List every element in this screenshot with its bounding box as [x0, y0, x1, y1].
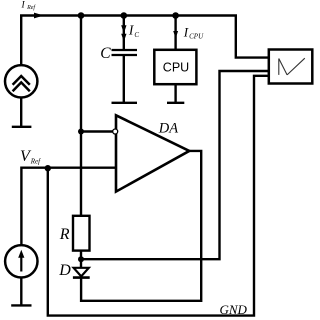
svg-text:VRef: VRef: [20, 148, 41, 166]
op-amp DA triangle: [116, 115, 189, 191]
wire DA output down and left to diode bottom: [81, 151, 201, 301]
junction node on rail at capacitor: [121, 12, 128, 19]
ground bar current source I2: [11, 304, 31, 306]
wire V_Ref to DA inverting (lower) input: [21, 168, 115, 246]
svg-text:CPU: CPU: [163, 60, 189, 74]
svg-text:D: D: [58, 262, 71, 279]
wire current source I2 bottom lead: [20, 277, 22, 305]
arrow I_CPU head: [173, 31, 178, 38]
junction node DA upper input: [78, 129, 84, 135]
wire current source I1 bottom lead: [20, 97, 22, 126]
diode D: [73, 268, 90, 278]
junction node between R and D: [78, 256, 84, 262]
wire CPU bottom lead: [174, 84, 176, 102]
wire capacitor bottom lead: [123, 56, 125, 103]
junction node V_Ref: [45, 165, 51, 171]
ground bar current source I1: [12, 126, 32, 128]
wire capacitor top lead: [123, 16, 125, 50]
svg-text:IRef: IRef: [21, 0, 37, 11]
svg-text:DA: DA: [158, 121, 178, 137]
svg-text:C: C: [100, 45, 111, 62]
svg-text:GND: GND: [220, 302, 248, 317]
svg-text:IC: IC: [128, 23, 140, 39]
wire vertical bus x=81 rail to resistor R: [80, 15, 82, 216]
resistor R body: [73, 216, 90, 251]
junction node on rail at x=81: [78, 12, 85, 19]
inverting input bubble: [113, 129, 118, 134]
wire GND loop from V_Ref node down along bottom and right to box: [48, 76, 270, 316]
wire DA upper input tap: [81, 130, 113, 132]
svg-text:ICPU: ICPU: [183, 24, 204, 40]
capacitor C plates: [112, 50, 138, 55]
current source I2 (arrow up): [5, 245, 37, 277]
wire top rail from I_Ref source to sawtooth box: [21, 16, 269, 66]
CPU box U1: [154, 50, 196, 84]
sawtooth generator box: [269, 50, 313, 84]
arrow I_C double head: [121, 25, 126, 41]
ground bar CPU: [167, 102, 184, 104]
wire CPU top lead: [174, 16, 176, 50]
current source I1 (double chevron): [5, 65, 37, 97]
junction node on rail at CPU: [172, 12, 179, 19]
wire from R-D node to sawtooth box middle input: [81, 71, 270, 259]
ground bar capacitor: [112, 102, 138, 104]
svg-text:R: R: [59, 226, 70, 243]
wire resistor bottom to diode top: [80, 251, 82, 268]
arrow on top rail (I_Ref direction): [34, 13, 44, 19]
